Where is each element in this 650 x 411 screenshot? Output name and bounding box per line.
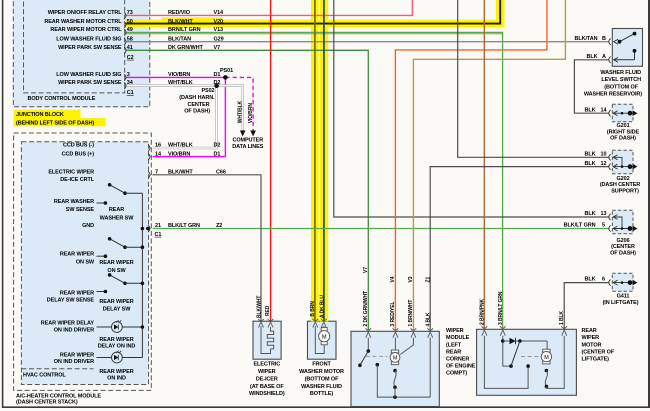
svg-text:BLK: BLK [586,54,597,60]
svg-text:(DASH CENTER STACK): (DASH CENTER STACK) [16,400,78,406]
rear washer sw [97,183,143,205]
BCM pin brackets C1 connector [124,74,126,80]
svg-text:B: B [602,36,606,42]
svg-text:14: 14 [601,107,608,113]
svg-text:REAR WIPER: REAR WIPER [99,299,133,305]
svg-text:G201: G201 [616,123,629,129]
svg-text:REAR WIPER: REAR WIPER [60,352,94,358]
svg-text:V3: V3 [408,276,414,282]
svg-text:WASHER FLUID: WASHER FLUID [301,384,342,390]
svg-text:OF ENGINE: OF ENGINE [446,364,476,370]
svg-text:MODULE: MODULE [446,335,470,341]
svg-text:ON IND DRIVER: ON IND DRIVER [54,359,94,365]
wire BLK/TAN G29 pin 58 to washer fluid level switch pin B [126,41,609,43]
de-icer pin arrows [259,322,264,328]
arrow computer data line VIO/BRN [250,131,256,137]
yellow highlight JUNCTION BLOCK label [14,110,81,118]
svg-text:G202: G202 [616,176,629,182]
wire BLK 10 to ground G202 [458,0,610,157]
svg-text:WASHER MOTOR: WASHER MOTOR [299,369,344,375]
svg-text:BLK/WHT: BLK/WHT [168,19,193,25]
wire BLK/WHT C66 pin 7 to electric wiper de-icer [153,175,262,321]
BCM pin brackets C2 connector [124,12,150,232]
svg-text:G411: G411 [617,294,630,300]
svg-text:C1: C1 [127,90,134,96]
wire BLK 6 rear wiper motor pin 1 to ground G411 [564,283,609,330]
svg-text:LEVEL SWITCH: LEVEL SWITCH [601,77,641,83]
svg-text:(BEHIND LEFT SIDE OF DASH): (BEHIND LEFT SIDE OF DASH) [16,121,94,127]
wire RED/VIO V14 pin 73 [126,0,412,15]
svg-text:C1: C1 [155,232,162,238]
svg-text:(DASH CENTER: (DASH CENTER [600,182,640,188]
wiper module motor [391,350,398,353]
svg-text:49: 49 [127,27,133,33]
svg-text:REAR: REAR [582,328,597,334]
svg-text:REAR WIPER: REAR WIPER [99,369,133,375]
svg-text:CCD BUS (+): CCD BUS (+) [62,151,95,157]
wire WHT/BLK branch PS02 to computer data lines [217,86,243,131]
svg-text:ON IND DRIVER: ON IND DRIVER [54,327,94,333]
svg-text:WHT/BLK: WHT/BLK [237,100,243,123]
wire DK BLU core to front washer motor pin A [323,0,325,321]
border frame right [648,0,650,408]
svg-text:JUNCTION BLOCK: JUNCTION BLOCK [16,112,64,118]
svg-text:BOTTLE): BOTTLE) [310,391,333,397]
svg-text:REAR WIPER: REAR WIPER [99,260,133,266]
svg-text:LIFTGATE): LIFTGATE) [582,357,610,363]
svg-text:3 BRN/LT GRN: 3 BRN/LT GRN [498,291,504,325]
svg-text:WIPER: WIPER [446,328,464,334]
svg-text:(AT BASE OF: (AT BASE OF [250,384,284,390]
wire BLK 13 to ground G206 [334,0,610,217]
svg-text:REAR WIPER DELAY: REAR WIPER DELAY [41,321,95,327]
ground G201 symbol [609,110,631,116]
svg-text:34: 34 [127,80,134,86]
svg-text:OF DASH): OF DASH) [610,250,636,256]
svg-text:VIO/BRN: VIO/BRN [168,151,190,157]
svg-text:58: 58 [127,36,133,42]
svg-text:2 DK GRN/WHT: 2 DK GRN/WHT [363,291,369,327]
svg-text:M: M [322,334,327,340]
yellow highlight band BLK/WHT V20 label area [162,17,223,27]
wire WHT/BLK D2 pin 34 to PS02 to CCD BUS minus [126,86,217,148]
yellow highlight band BLK/WHT V20 vertical exit [496,0,505,27]
front washer motor symbol [319,328,330,345]
wire VIO/BRN D1 pin 3 to PS01 to CCD BUS plus [126,77,225,156]
rear wiper motor diode [503,340,547,342]
ground G411 symbol [609,279,631,285]
rear wiper on sw [97,237,145,258]
svg-text:VIO/BRN: VIO/BRN [248,103,254,124]
border frame bottom [2,406,650,408]
svg-text:CCD BUS (-): CCD BUS (-) [63,143,94,149]
svg-text:BLK/WHT: BLK/WHT [168,169,193,175]
svg-text:BLK: BLK [584,151,595,157]
rear wiper motor pin 3 lead [503,336,511,366]
rear wiper motor pin arrows [482,330,487,336]
border frame left [2,0,4,408]
rear wiper motor symbol [543,349,550,352]
wiper module connector arcs [366,328,372,330]
svg-text:LOW WASHER FLUID SIG: LOW WASHER FLUID SIG [56,72,121,78]
svg-text:Z2: Z2 [216,223,222,229]
wiper module park switch [367,338,369,351]
svg-text:VIO/BRN: VIO/BRN [168,72,190,78]
svg-text:COMPT): COMPT) [446,371,467,377]
svg-text:G206: G206 [616,238,629,244]
svg-text:1 BRN/WHT: 1 BRN/WHT [408,300,414,327]
svg-text:OF DASH): OF DASH) [184,109,210,115]
svg-text:BLK/LT GRN: BLK/LT GRN [564,223,596,229]
wire BRN core to front washer motor pin B [314,0,316,321]
wire BRN/PNK to rear wiper motor pin 2 [483,0,485,329]
svg-text:B BRN: B BRN [310,301,316,317]
svg-text:DELAY SW: DELAY SW [103,306,132,312]
wiper module box [351,331,439,406]
svg-text:COMPUTER: COMPUTER [232,137,263,143]
svg-text:WASHER RESERVOIR): WASHER RESERVOIR) [584,92,642,98]
svg-text:DK GRN/WHT: DK GRN/WHT [168,45,203,51]
svg-text:RED/VIO: RED/VIO [168,10,191,16]
svg-text:REAR: REAR [109,207,124,213]
svg-text:V14: V14 [214,10,225,16]
svg-text:D1: D1 [214,151,221,157]
svg-text:(IN LIFTGATE): (IN LIFTGATE) [603,300,639,306]
wire VIO/BRN dashed branch PS01 to computer data lines [225,77,253,130]
ground G206 symbol [609,214,631,232]
svg-text:A DK BLU: A DK BLU [319,295,325,318]
svg-text:BLK/TAN: BLK/TAN [168,36,191,42]
svg-text:V4: V4 [390,276,396,282]
svg-text:D2: D2 [214,80,221,86]
ground G202 symbol [609,154,631,170]
svg-text:(DASH HARN.: (DASH HARN. [179,95,215,101]
svg-text:6: 6 [602,277,605,283]
yellow highlight band BLK/WHT V20 horizontal [126,20,504,28]
svg-text:DE-ICE CRTL: DE-ICE CRTL [60,177,94,183]
svg-text:DELAY ON IND: DELAY ON IND [98,344,136,350]
wire BLK 12 Z1 wiper module pin 4 to ground G202 [430,167,609,332]
svg-text:V13: V13 [214,27,224,33]
arrow computer data line WHT/BLK [240,131,246,137]
svg-text:REAR WIPER MOTOR CTRL: REAR WIPER MOTOR CTRL [50,27,122,33]
washer fluid level switch contacts [620,34,635,42]
svg-text:73: 73 [127,10,133,16]
svg-text:(BOTTOM OF: (BOTTOM OF [305,376,339,382]
svg-text:DELAY SW SENSE: DELAY SW SENSE [47,297,95,303]
wire BLK A washer fluid level switch to ground G201 pin 14 [574,60,609,113]
rear wiper motor interior [482,326,567,388]
svg-text:ON IND: ON IND [107,376,126,382]
wiper module breaker curve [393,369,397,373]
svg-text:DE-ICER: DE-ICER [256,376,278,382]
svg-text:CORNER: CORNER [446,357,469,363]
svg-text:M: M [544,355,549,361]
svg-text:V7: V7 [214,45,221,51]
svg-text:V7: V7 [363,267,369,273]
svg-text:WHT/BLK: WHT/BLK [168,143,193,149]
yellow highlight band BRN wire vertical [311,0,319,321]
svg-text:WASHER FLUID: WASHER FLUID [600,70,641,76]
svg-text:WHT/BLK: WHT/BLK [168,80,193,86]
svg-text:3 RED/YEL: 3 RED/YEL [390,302,396,327]
ground G201 box [612,104,633,122]
rear wiper on ind LED [97,351,143,363]
rear wiper motor box [477,329,577,395]
svg-text:ON SW: ON SW [76,260,95,266]
wire BLK/WHT V20 core pin 50 [126,0,500,24]
svg-text:CENTER: CENTER [187,102,209,108]
wiper module interior [358,328,433,399]
wire BLK/LT GRN Z2 GND pin 21 to ground G206 pin 5 [153,228,610,230]
svg-text:RED: RED [265,305,271,316]
svg-text:REAR WASHER: REAR WASHER [54,199,94,205]
svg-text:5: 5 [602,223,605,229]
svg-text:WIPER PARK SW SENSE: WIPER PARK SW SENSE [58,45,122,51]
wiper module mechanical link dashes [366,355,388,357]
rear wiper motor lead to motor [546,341,548,349]
svg-text:BLK: BLK [584,107,595,113]
svg-text:WIPER: WIPER [582,335,600,341]
svg-text:(BOTTOM OF: (BOTTOM OF [604,84,638,90]
electric wiper de-icer box [253,321,281,359]
svg-text:REAR WASHER MOTOR CTRL: REAR WASHER MOTOR CTRL [44,19,122,25]
A/C-heater module pin brackets [148,145,150,151]
BCM connector C2 labels [16,10,264,406]
svg-text:SW SENSE: SW SENSE [66,207,95,213]
wire BRN/WHT V3 to wiper module pin 1 [413,0,565,331]
front washer motor pin arrows [313,322,318,328]
svg-text:WIPER ON/OFF RELAY CTRL: WIPER ON/OFF RELAY CTRL [48,10,123,16]
A/C-heater control module outer box [14,133,152,390]
svg-text:50: 50 [127,19,133,25]
svg-text:DATA LINES: DATA LINES [232,144,263,150]
junction dot GND bus [141,227,145,231]
rear wiper motor connector arcs [482,326,488,328]
HVAC control separator line [21,368,93,370]
svg-text:BLK: BLK [584,161,595,167]
wiper module pin 4 lead [429,338,431,397]
svg-text:V20: V20 [214,19,224,25]
rear wiper motor pin 2 path to park contact [484,336,528,389]
svg-text:BODY CONTROL MODULE: BODY CONTROL MODULE [28,96,96,102]
svg-text:PS02: PS02 [201,88,214,94]
svg-text:WIPER PARK SW SENSE: WIPER PARK SW SENSE [58,80,122,86]
svg-text:OF DASH): OF DASH) [610,136,636,142]
rear wiper motor mechanical link dashes [521,356,540,358]
wire BRN/LT GRN V13 pin 49 to rear wiper motor pin 3 [126,33,503,35]
svg-text:13: 13 [601,211,607,217]
rear wiper delay on ind LED [97,320,145,332]
svg-text:(LEFT: (LEFT [446,342,462,348]
svg-text:C2: C2 [127,55,134,61]
wiper module motor leads [394,338,396,350]
rear wiper delay sw [97,273,145,293]
svg-text:ELECTRIC: ELECTRIC [253,362,280,368]
svg-text:BLK/LT GRN: BLK/LT GRN [168,223,200,229]
svg-text:16: 16 [155,143,161,149]
svg-text:21: 21 [155,223,161,229]
wire DK GRN/WHT V7 pin 41 to wiper module pin 2 [126,50,368,331]
svg-text:BLK/WHT: BLK/WHT [256,296,262,318]
svg-text:12: 12 [601,161,607,167]
wire RED/YEL to wiper module pin 3 [395,0,547,331]
wiper module park contact to ground bus [376,363,380,367]
svg-text:BLK: BLK [584,211,595,217]
svg-text:ELECTRIC WIPER: ELECTRIC WIPER [48,169,94,175]
electric wiper de-icer element [261,326,274,354]
ground G202 box [612,150,633,173]
splice PS01 [223,75,228,80]
wiper module pin arrows [366,332,371,338]
junction dot at pin 21 [146,227,150,231]
front washer motor connector arcs [313,319,319,321]
svg-text:C66: C66 [216,169,226,175]
svg-text:REAR WIPER: REAR WIPER [60,291,94,297]
svg-text:PS01: PS01 [220,68,233,74]
svg-text:REAR WIPER: REAR WIPER [60,252,94,258]
svg-text:WASHER SW: WASHER SW [100,215,135,221]
washer fluid level switch pin A bracket and arrow [609,57,611,63]
washer fluid level switch pin B bracket and arrow [609,39,618,64]
svg-text:(CENTER: (CENTER [611,244,635,250]
svg-text:2 BRN/PNK: 2 BRN/PNK [479,298,485,325]
svg-text:ON SW: ON SW [107,268,126,274]
splice PS02 [214,83,219,88]
ground G411 box [612,273,633,291]
body control module inner box [24,0,125,93]
svg-text:(RIGHT SIDE: (RIGHT SIDE [607,129,640,135]
front washer motor box [308,321,337,359]
svg-text:A/C-HEATER CONTROL MODULE: A/C-HEATER CONTROL MODULE [16,393,101,399]
svg-text:(CENTER OF: (CENTER OF [582,349,615,355]
svg-text:G29: G29 [214,36,224,42]
svg-text:BLK: BLK [584,277,595,283]
svg-text:WIPER: WIPER [258,369,276,375]
svg-text:A: A [602,54,606,60]
de-icer connector arcs [258,319,264,321]
svg-text:FRONT: FRONT [312,362,331,368]
svg-text:BLK/TAN: BLK/TAN [574,36,597,42]
svg-text:10: 10 [601,151,607,157]
junction block outer box [13,0,150,107]
washer fluid level switch box [612,29,642,67]
svg-text:SUPPORT): SUPPORT) [611,188,639,194]
wire RED to electric wiper de-icer [270,0,272,321]
ground G206 box [612,210,633,234]
svg-text:14: 14 [155,151,162,157]
svg-text:3: 3 [127,72,130,78]
svg-text:WINDSHIELD): WINDSHIELD) [249,391,285,397]
svg-text:GND: GND [82,223,94,229]
svg-text:REAR WIPER: REAR WIPER [99,337,133,343]
svg-text:Z1: Z1 [426,277,432,283]
svg-text:MOTOR: MOTOR [582,342,602,348]
svg-text:41: 41 [127,45,133,51]
svg-text:BRN/LT GRN: BRN/LT GRN [168,27,201,33]
rear wiper motor switch arm [511,341,520,366]
yellow highlight band DK BLU wire vertical [320,0,328,321]
svg-text:1 BLK: 1 BLK [559,311,565,325]
rear wiper motor breaker curve [545,369,549,373]
svg-text:M: M [393,355,397,361]
svg-text:REAR: REAR [446,349,461,355]
HVAC control inner box [21,142,148,385]
svg-text:HVAC CONTROL: HVAC CONTROL [23,372,66,378]
front washer motor internal [315,326,324,354]
svg-text:7: 7 [155,169,158,175]
svg-text:LOW WASHER FLUID SIG: LOW WASHER FLUID SIG [56,36,121,42]
A/C module internal bus vertical [141,193,143,357]
svg-text:4 BLK: 4 BLK [426,312,432,326]
svg-text:D2: D2 [214,143,221,149]
